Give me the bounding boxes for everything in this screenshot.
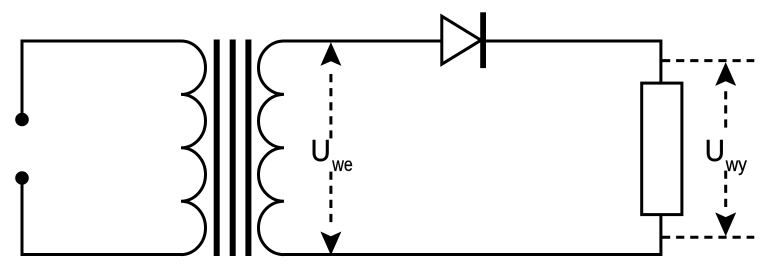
dashed line: bottom output node	[662, 236, 754, 239]
transformer core bar 1	[214, 40, 220, 257]
U_we arrow upper dashed segment	[329, 74, 332, 138]
svg-text:wy: wy	[725, 155, 747, 176]
resistor R load (rectangle)	[642, 83, 682, 215]
svg-text:U: U	[705, 133, 725, 168]
svg-text:U: U	[311, 133, 331, 168]
U_we arrow lower dashed segment	[329, 172, 332, 223]
svg-text:we: we	[331, 155, 352, 176]
transformer core bar 3	[245, 40, 251, 257]
U_wy arrow upper dashed segment	[724, 91, 727, 128]
wire: resistor bottom to bottom wire back to secondary	[284, 215, 661, 255]
U_wy arrow bottom head	[715, 212, 736, 236]
wire: secondary top to diode anode	[284, 40, 441, 43]
diode D1 triangle (anode)	[442, 16, 481, 64]
wire: primary loop left bottom and bottom (from lower input terminal to primary coil bottom)	[22, 185, 181, 255]
transformer secondary winding (4 arcs)	[259, 41, 285, 255]
dashed line: top output node	[662, 59, 754, 62]
U_we arrow bottom head	[320, 232, 341, 256]
diode D1 cathode bar	[480, 12, 486, 68]
transformer primary winding (4 arcs)	[181, 41, 206, 255]
wire: diode cathode to top-right corner and down to resistor	[486, 41, 661, 83]
node: upper input terminal dot	[15, 113, 29, 127]
transformer core bar 2	[230, 40, 236, 257]
U_we arrow top head	[320, 42, 341, 66]
node: lower input terminal dot	[15, 171, 29, 185]
U_wy arrow lower dashed segment	[724, 171, 727, 208]
U_wy arrow top head	[715, 62, 736, 86]
wire: primary loop top and left (from primary coil top to upper input terminal)	[22, 41, 181, 113]
